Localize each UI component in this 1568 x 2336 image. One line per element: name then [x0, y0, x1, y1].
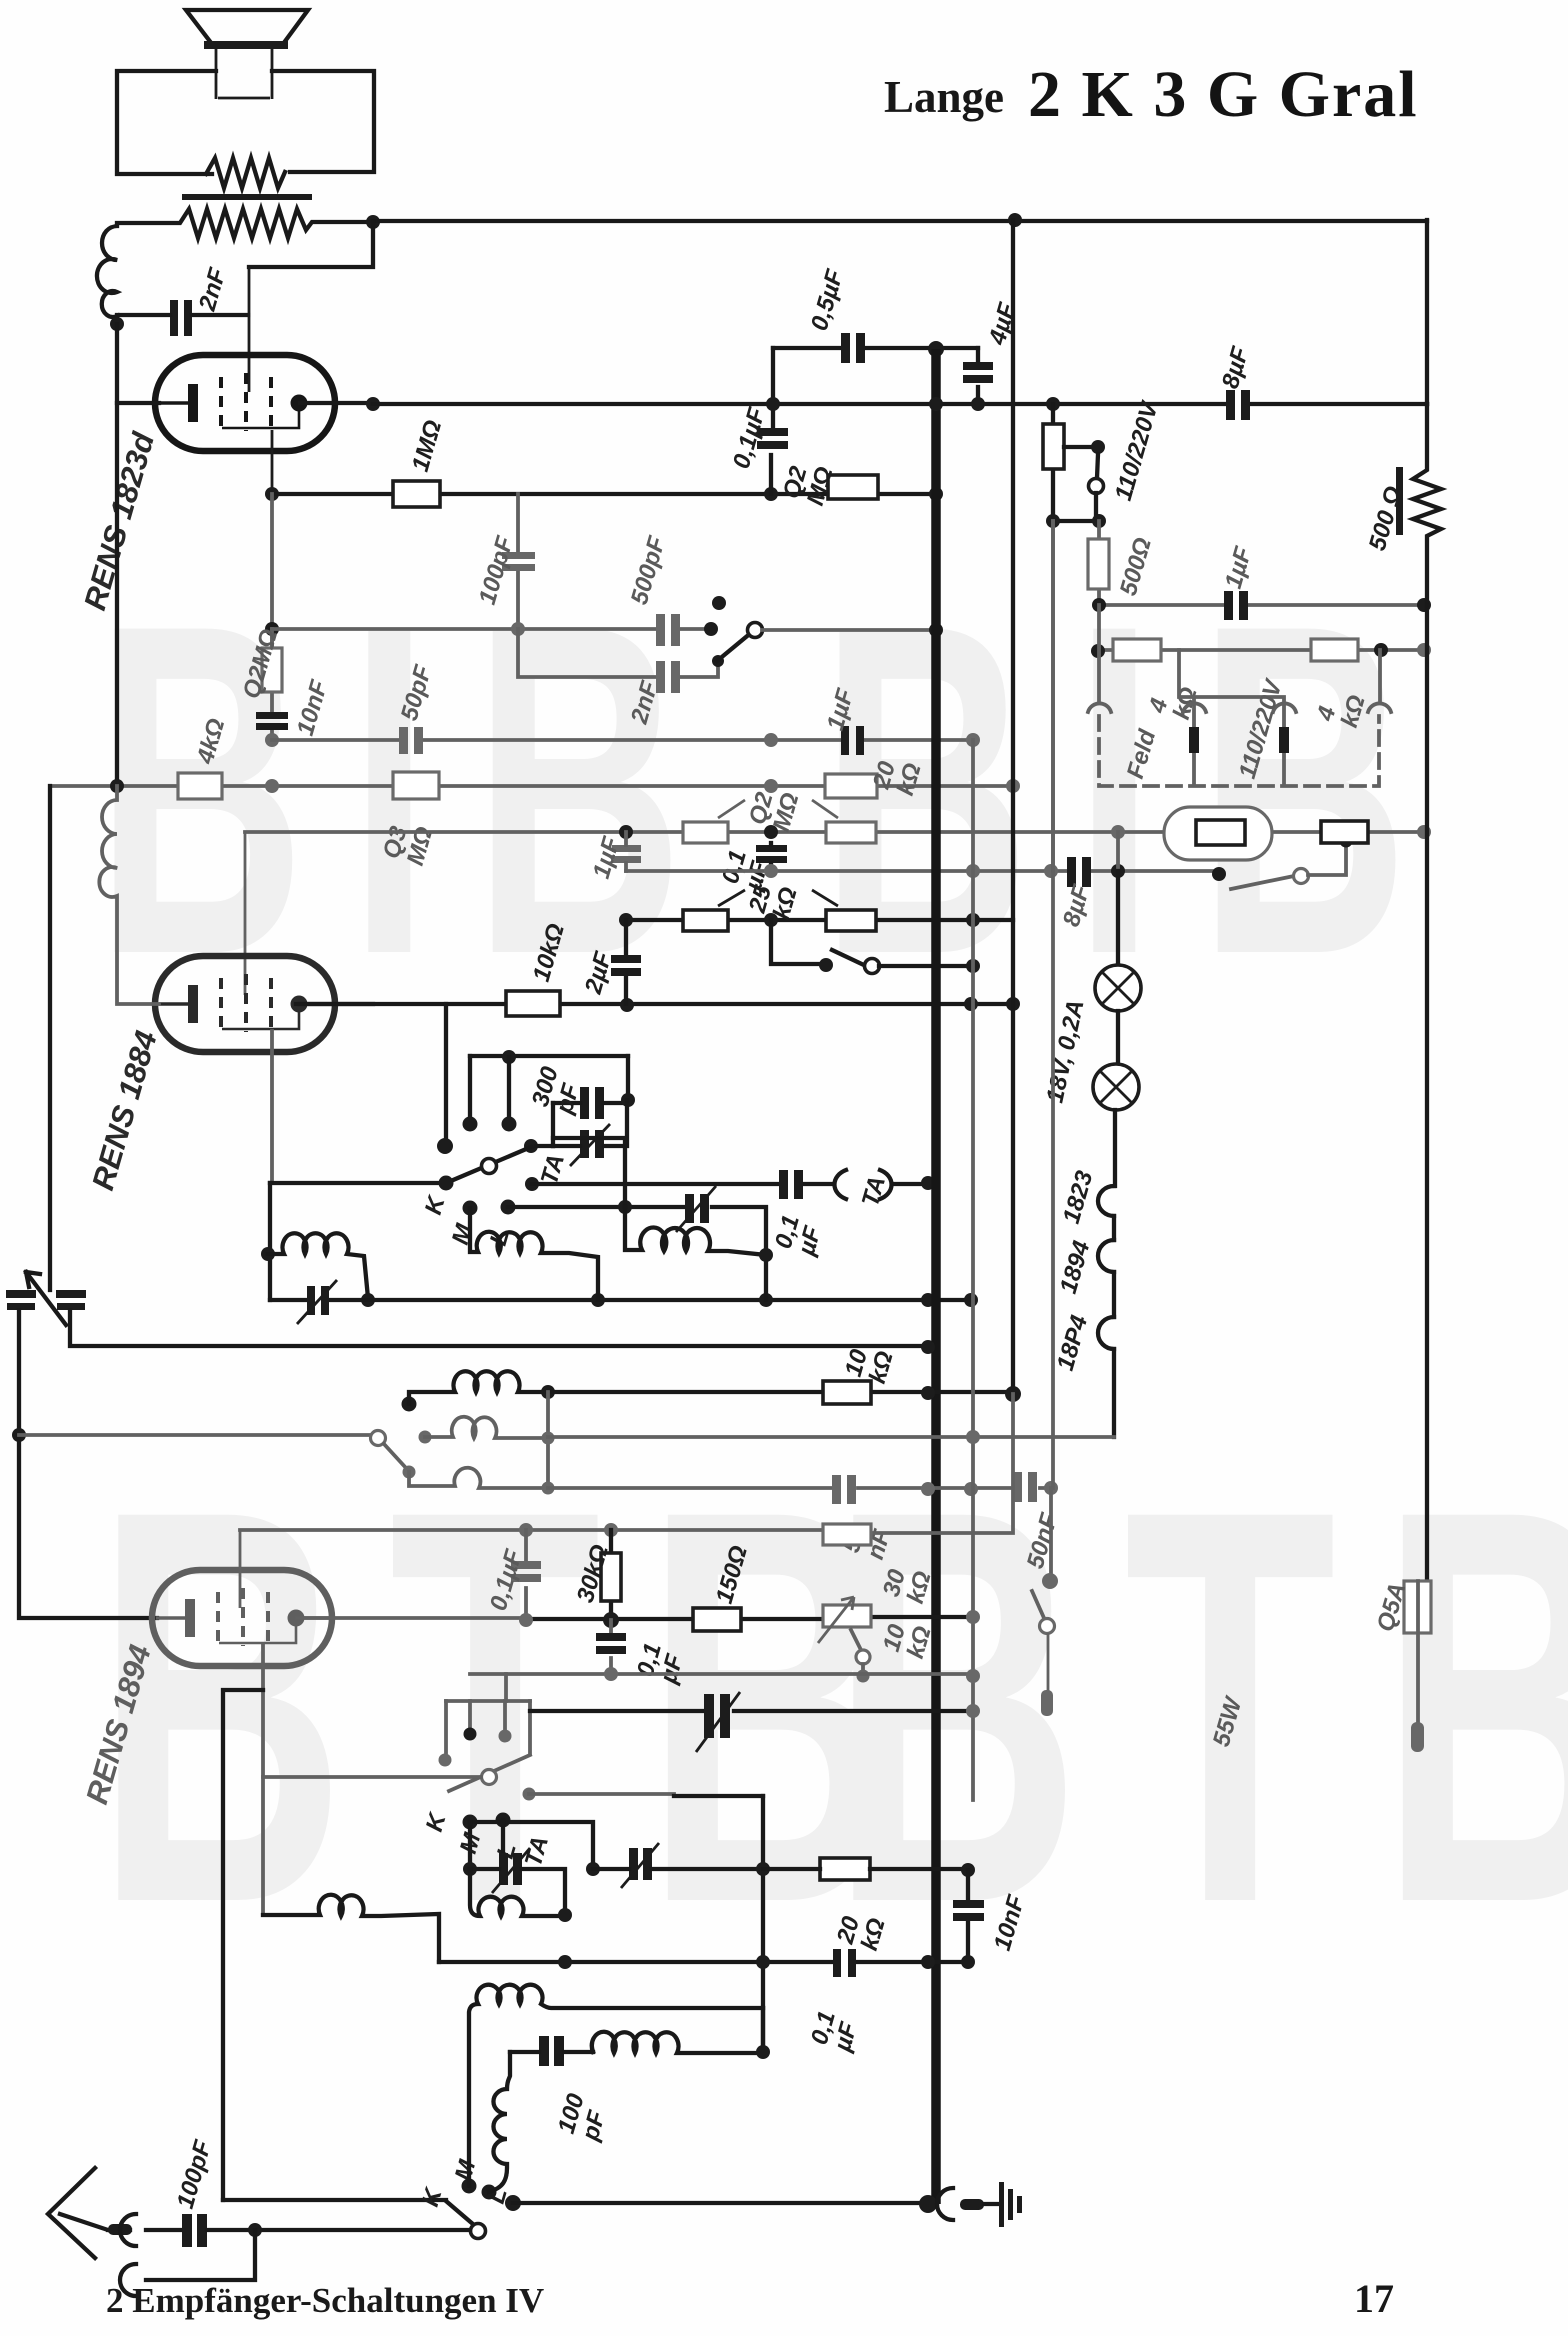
wire x625 link to 300pF box [553, 1138, 625, 1207]
node osc coil left [261, 1247, 275, 1261]
wire L top row y=2052 [510, 2050, 593, 2054]
node y1711 x971 [966, 1704, 980, 1718]
resistor 150Ω [693, 1608, 741, 1631]
node y1617 x971 [966, 1610, 980, 1624]
wire 100pF to switch pivot [207, 2228, 470, 2232]
node y966 x973 [966, 959, 980, 973]
wire antenna link x223 [223, 1690, 263, 2200]
node y1674 x971 [966, 1669, 980, 1683]
wire 0,5µF row y=348 [773, 346, 978, 350]
node y871 x771 [764, 864, 778, 878]
node y871 x1051 [1044, 864, 1058, 878]
node y740 x272 [265, 733, 279, 747]
wire M winding top row corner [761, 2008, 765, 2052]
resistor 0,2MΩ grid leak [828, 475, 878, 499]
stub M contact [468, 1056, 472, 1122]
watermark row 2 [95, 1393, 1568, 2019]
switch lever band1 [446, 1147, 531, 1183]
wire grid row y=832 [245, 830, 1427, 834]
node 100pF joint on 629 row [511, 622, 525, 636]
node y1392 bus [921, 1386, 935, 1400]
capacitor 8µF plates on row 871 [1067, 857, 1076, 887]
node x18 y1435 [12, 1428, 26, 1442]
node heater return x971 [966, 1430, 980, 1444]
wire 20k row [763, 1867, 968, 1871]
wire heater return [1112, 1349, 1116, 1437]
wire anode tube1 to x373 [300, 401, 374, 405]
switch lever AVC [832, 950, 866, 966]
wire x1099 from 605 to 650 and into box [1097, 605, 1101, 701]
coil cathode tube2 [99, 786, 159, 1004]
node y740 x771 [764, 733, 778, 747]
capacitor 100pF vertical from 1M row [516, 494, 520, 629]
antenna plug blob [108, 2224, 132, 2235]
barretter inner resistor [1196, 820, 1245, 845]
node y1488 x1051 [1044, 1481, 1058, 1495]
node: coil bottom junction [110, 317, 124, 331]
capacitor 0,1µF common [833, 1949, 841, 1977]
wire pivot down and link y=521 [1053, 493, 1099, 521]
watermark row 1 [95, 527, 1452, 1052]
node y1300 x598 [591, 1293, 605, 1307]
capacitor 100pF antenna [182, 2214, 192, 2247]
wire heater return y1436 [548, 1435, 1114, 1439]
wire 50nF row y=1489 [548, 1486, 1051, 1490]
box left edge [551, 1103, 555, 1146]
wire K contact drop x446 [444, 1004, 448, 1144]
coil M winding vertical [469, 1985, 763, 2186]
capacitor 50nF first [832, 1475, 841, 1504]
wire heater link 2 [1112, 1272, 1116, 1317]
node y521 x1053 [1046, 514, 1060, 528]
wire 300pF row [553, 1101, 628, 1105]
box header band3 [446, 1699, 530, 1703]
wire row y=786 with corner to left rail [50, 784, 1013, 788]
svg-text:2 Empfänger-Schaltungen IV: 2 Empfänger-Schaltungen IV [106, 2281, 544, 2320]
triode RENS 1894 [152, 1570, 332, 1666]
node y832 x626 [619, 825, 633, 839]
capacitor 1µF PSU [1224, 591, 1233, 620]
node y920 x771 [764, 913, 778, 927]
capacitor 100pF band3 [539, 2036, 549, 2066]
capacitor 2nF (tone) plates [656, 661, 665, 693]
node y1489 x971 [964, 1482, 978, 1496]
node y1392 x1008 [1005, 1386, 1021, 1402]
node x628 y1100 [621, 1093, 635, 1107]
node tone wire at bus [929, 623, 943, 637]
svg-text:Lange: Lange [884, 72, 1004, 122]
node y920 x973 [966, 913, 980, 927]
node coil2 left [419, 1431, 432, 1444]
resistor 500Ω dropper [1097, 521, 1101, 605]
switch lever band2 [384, 1444, 406, 1468]
trimmer capacitor large [704, 1694, 714, 1738]
node anode junction x373 y405 [366, 397, 380, 411]
cathode coil left of transformer [97, 226, 117, 322]
node y786 x771 [764, 779, 778, 793]
resistor 10kΩ row1392 [823, 1381, 871, 1404]
wire top bus y=220 to right rail [373, 219, 1427, 223]
node y871 x1118 [1111, 864, 1125, 878]
resistor 0,3MΩ [393, 772, 439, 799]
node 4µF bottom [971, 397, 985, 411]
wire header y=1822 to x593 [470, 1822, 593, 1869]
node 0,1µF tap on 1M row [764, 487, 778, 501]
wire tube3 grid lead [239, 1530, 242, 1608]
wire: anode feedback down to grid of tube 1 [249, 222, 373, 267]
node x1053 on anode row [1046, 397, 1060, 411]
loudspeaker neck [216, 47, 272, 99]
wire gang left section down [17, 1310, 21, 1434]
node x773 y404 [766, 397, 780, 411]
node 1M row left [265, 487, 279, 501]
TA pickup coupler arcs [834, 1170, 891, 1199]
wire gang right section down and AVC row [70, 1310, 928, 1346]
wire long vertical x1013 from top bus [1011, 220, 1015, 1395]
node ground row start [505, 2195, 521, 2211]
capacitor 0,1µF grid left [524, 1530, 528, 1619]
wire arc4 up to 4k row [1378, 650, 1382, 700]
capacitor 4µF [976, 348, 980, 404]
node M coil right x565 [558, 1908, 572, 1922]
node y786 x115 [110, 779, 124, 793]
switch lever mains secondary [1231, 876, 1294, 889]
loudspeaker horn [186, 10, 308, 44]
wire cathode tube1 to left rail [117, 401, 159, 405]
wire left bias rail x=117 [115, 324, 119, 786]
node y650 x1098 [1091, 644, 1105, 658]
resistor 4kΩ right PSU [1311, 639, 1358, 661]
box right edge [528, 1701, 532, 1753]
stub K band3 [444, 1701, 448, 1757]
node y1869 x763 [756, 1862, 770, 1876]
wire grid return row y=1436 [19, 1433, 371, 1437]
wire tap to switch contact [1064, 445, 1096, 449]
switch pivot band2 [371, 1431, 386, 1446]
node y871 x973 [966, 864, 980, 878]
capacitor 1µF between 832 and 872 at x626 [612, 845, 641, 852]
wire 1M row y=494 [272, 492, 936, 496]
coil3 short [409, 1468, 547, 1488]
wire x1008 gray segment down to 30k row [871, 1394, 1013, 1533]
svg-text:2 K 3 G Gral: 2 K 3 G Gral [1028, 58, 1419, 131]
trimmer cap in osc box bottom [307, 1286, 315, 1315]
wire y=1183 left segment from tube2 [270, 1181, 446, 1185]
wire L stub to trimmer [501, 1820, 505, 1853]
node y1004 x971 [964, 997, 978, 1011]
lever tip contact band1 [524, 1139, 538, 1153]
wire x763 vertical [761, 1796, 765, 2052]
node y650 x1424 [1417, 643, 1431, 657]
stub L contact [507, 1057, 511, 1122]
triode RENS 1823d [155, 355, 335, 451]
tuning gang arrow [26, 1272, 66, 1325]
wire osc box bottom y=1300 [270, 1298, 971, 1302]
antenna jack arc [120, 2214, 136, 2246]
switch lever 110/220 [1097, 454, 1098, 478]
wire pivot feed y=1777 [263, 1775, 481, 1779]
capacitor 0,5µF [841, 333, 850, 363]
resistor 20kΩ bottom [820, 1858, 870, 1880]
node y871 x1219 [1212, 867, 1226, 881]
capacitor 0,1µF anode to grid-leak row [771, 404, 773, 494]
switch pivot 110/220 [1089, 479, 1104, 494]
node mains switch contact [1042, 1573, 1058, 1589]
wire grid row y=1530 [240, 1528, 823, 1532]
main HT bus (thick) [931, 349, 941, 2204]
coil1 oscillator black [409, 1371, 548, 1404]
ground jack arc [937, 2188, 953, 2220]
switch pivot antenna [471, 2224, 486, 2239]
capacitor 0,1µF TA [779, 1170, 788, 1199]
wire grid lead tube1 [248, 267, 251, 392]
capacitor 2nF plates [170, 300, 178, 336]
wire row y=920 [626, 918, 1013, 922]
box outline left vertical [268, 1183, 272, 1300]
wire heater link 1 [1112, 1216, 1116, 1240]
wire return row y=1674 [470, 1672, 973, 1676]
switch pot pull [851, 1630, 861, 1650]
wire from tone switch to bus [762, 628, 936, 632]
antenna symbol [48, 2168, 95, 2258]
coil oscillator [268, 1233, 368, 1298]
trimmer band2 [685, 1194, 694, 1223]
node y832 right rail [1417, 825, 1431, 839]
node upper spare contact [712, 596, 726, 610]
wire x1051 long vertical [1051, 521, 1055, 1488]
node at x=1015 on top bus [1008, 213, 1022, 227]
node TA wire start [525, 1177, 539, 1191]
node y1300 x766 [759, 1293, 773, 1307]
wire x971 long vertical [971, 740, 975, 1800]
node y1962 x968 [961, 1955, 975, 1969]
wire 2nF branch [518, 629, 718, 677]
secondary winding resistor zigzag [206, 158, 285, 188]
wire oscillator coil band3 [263, 1895, 439, 1962]
node switch contact 110/220 [1091, 440, 1105, 454]
switch pivot AVC [865, 959, 880, 974]
switch lever band3 [449, 1755, 530, 1791]
node y650 x1381 [1374, 643, 1388, 657]
wire TA row y=1184 [532, 1182, 928, 1186]
node TA wire start band3 [523, 1788, 536, 1801]
heater 18P4 bump [1098, 1317, 1114, 1349]
wire tip to box [536, 1144, 553, 1148]
switch lever mains [1032, 1591, 1044, 1618]
trimmer cap band3 L [629, 1848, 638, 1880]
wire x18 down to tube3 cathode [19, 1435, 157, 1618]
wire right rail upper [1425, 220, 1429, 404]
wire row y=629 [272, 627, 708, 631]
wire anode tube2 [300, 1002, 373, 1006]
node y1004 x627 [620, 998, 634, 1012]
node y1619 x611 [603, 1612, 619, 1628]
node: primary right junction [366, 215, 380, 229]
wire pivot to x973 [879, 964, 973, 968]
resistor 0,2MΩ left on 832 [683, 822, 728, 843]
resistor 4kΩ left PSU [1113, 639, 1161, 661]
switch lever tone [717, 632, 752, 661]
node x625 y1207 [618, 1200, 632, 1214]
wire ground row y=2204 [513, 2201, 925, 2205]
node coil3 right x548 [542, 1482, 555, 1495]
triode RENS 1884 [155, 956, 335, 1052]
node antenna junction [248, 2223, 262, 2237]
capacitor 10nF bottom [966, 1870, 970, 1962]
node y832 x771 [764, 825, 778, 839]
label 25kΩ with pointers [718, 890, 838, 906]
node y1530 x611 [604, 1523, 618, 1537]
node y1004 x1011 [1006, 997, 1020, 1011]
node 500pF output contact [704, 622, 718, 636]
capacitor 2µF between 920 and 1004 [624, 920, 628, 1004]
wire 1µF row y=605 [1099, 603, 1424, 607]
node y786 x1011 [1006, 779, 1020, 793]
wire anode row y=1004 [296, 1002, 1013, 1006]
tuning gang capacitor plates [6, 1290, 36, 1298]
wire from pivot to regulator resistor [1308, 843, 1346, 875]
potentiometer 10kΩ volume [823, 1605, 871, 1627]
coil L band2 [625, 1207, 766, 1255]
switch pivot [1294, 869, 1309, 884]
capacitor 300pF plates [580, 1087, 589, 1119]
capacitor 500pF plates [656, 614, 665, 646]
wire pivot to plug [1047, 1633, 1050, 1692]
resistor 25kΩ left [683, 910, 728, 931]
wire x1053 down to 8uF row [1051, 521, 1055, 871]
trimmer cap band3 M [499, 1853, 508, 1885]
wire header corner down x628 [626, 1056, 630, 1100]
node y786 x272 [265, 779, 279, 793]
node y832 x1118 [1111, 825, 1125, 839]
node y605 x1099 [1092, 598, 1106, 612]
switch pivot band1 [482, 1159, 497, 1174]
node switch fixed [819, 958, 833, 972]
svg-text:17: 17 [1354, 2276, 1394, 2321]
transformer box dashed outline [1099, 716, 1379, 786]
wire K contact row y=2200 [223, 2198, 446, 2202]
node y1489 bus [921, 1482, 935, 1496]
wire 10k row y=1392 [548, 1390, 1013, 1394]
node bus joint on 1M row [929, 487, 943, 501]
node L coil right [759, 1248, 773, 1262]
node osc coil right [361, 1293, 375, 1307]
wire common row y=1962 [439, 1960, 968, 1964]
node y920 x626 [619, 913, 633, 927]
resistor 30kΩ vertical black [609, 1530, 613, 1619]
node bus top [928, 341, 944, 357]
node 10nF top [961, 1863, 975, 1877]
resistor 30kΩ horizontal [823, 1524, 871, 1545]
wire anode row y=404 [373, 402, 1427, 406]
heater 1894 bump [1098, 1240, 1114, 1272]
transformer pins [1189, 727, 1199, 753]
wire y=1711 [530, 1709, 973, 1713]
switch below 25k: stub [771, 920, 824, 964]
coil L winding vertical [489, 2052, 510, 2192]
node header x509 [502, 1050, 516, 1064]
wire earth input loop [146, 2230, 255, 2280]
slider bar beside 500Ω [1396, 467, 1403, 535]
resistor 500Ω field zigzag on rail [1413, 404, 1441, 1581]
node x593 y1869 [586, 1862, 600, 1876]
wire lamp2 to heaters [1113, 1110, 1117, 1186]
mains plug blob [1041, 1690, 1053, 1716]
node switch bottom [857, 1670, 870, 1683]
wire x773 down to anode row [771, 348, 775, 404]
wire L row y=1207 [508, 1207, 766, 1300]
dial lamp 1 [1095, 965, 1141, 1011]
wire tube2 grid lead [244, 832, 247, 995]
resistor 1MΩ [393, 481, 440, 507]
lever contact blob [403, 1466, 416, 1479]
wire trimmer row [553, 1100, 627, 1146]
wire 4k row y=650 [1098, 648, 1424, 652]
wire x548 coil junctions [546, 1392, 550, 1489]
barretter lamp oval [1164, 807, 1272, 860]
coil L coupling horizontal [592, 2032, 763, 2053]
node ground at bus [919, 2195, 937, 2213]
wire M stub down [468, 1822, 472, 1869]
node y521 x1099 [1092, 514, 1106, 528]
mask wire gap for 8µF [1228, 398, 1248, 410]
capacitor 1µF on row 740 [841, 726, 849, 755]
wire x272 629 to 740 with 0,2M and 10nF [270, 629, 274, 740]
wire x593 trimmer row to 20k row [593, 1867, 763, 1871]
node coil2 right x548 [542, 1432, 555, 1445]
wire left rail x50 down to gang [48, 786, 52, 1290]
node L winding bottom [482, 2185, 497, 2200]
resistor 20kΩ top [825, 774, 877, 798]
capacitor 50pF plates [399, 727, 408, 754]
wire 2nF row [117, 313, 248, 317]
node L contact band3 [496, 1813, 511, 1828]
node lever root [439, 1176, 454, 1191]
capacitor 8µF right on anode row [1226, 390, 1235, 420]
wire to earth [984, 2202, 1000, 2206]
capacitor 0,1µF between 832 and 872 [756, 845, 787, 852]
resistor 0,2MΩ right on 832 [826, 822, 876, 843]
ground plug blob [960, 2199, 984, 2210]
node L coil top [501, 1200, 516, 1215]
wire x272 from 1M row down to 629 row [270, 494, 274, 648]
speaker box outline [117, 71, 374, 174]
wire tube2 bottom lead to band switch row [270, 1031, 274, 1183]
wire antenna to 100pF [146, 2228, 182, 2232]
coil M band2 [470, 1208, 598, 1300]
node bus on anode row [929, 397, 943, 411]
fuse terminal blob [1411, 1722, 1424, 1752]
wire anode row tube3 y=1619 [297, 1616, 526, 1620]
fuse 0,5A [1404, 1581, 1431, 1633]
earth jack arc second [120, 2264, 136, 2296]
node TA row at bus [921, 1176, 935, 1190]
earth symbol [999, 2182, 1004, 2227]
node y1300 x971 [964, 1293, 978, 1307]
node regulator bottom [1340, 835, 1353, 848]
resistor 25kΩ right [826, 910, 876, 931]
potentiometer mains dropper [1051, 404, 1055, 521]
node y1962 x763 [756, 1955, 770, 1969]
wire x1048 to mains switch [1049, 1488, 1053, 1576]
node y1530 x526 [519, 1523, 533, 1537]
transformer terminal arcs [1088, 703, 1391, 712]
node y629 [265, 622, 279, 636]
wire row y=871 [626, 869, 1219, 873]
label 0,2MΩ pair with pointers [718, 800, 838, 818]
node y1962 at bus [921, 1955, 935, 1969]
wire y=1795 TA row [529, 1792, 674, 1796]
